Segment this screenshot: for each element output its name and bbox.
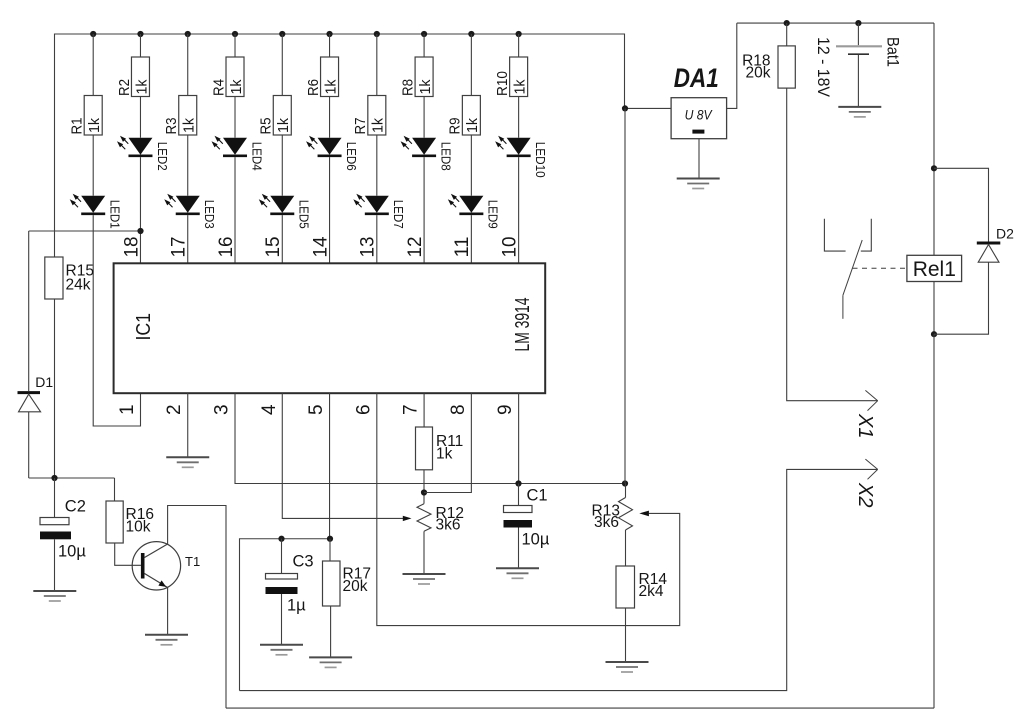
resistor R8 1k bbox=[400, 57, 434, 97]
resistor R9 1k bbox=[448, 96, 482, 136]
svg-text:R10: R10 bbox=[495, 71, 511, 96]
wire: R13 to R14 bbox=[625, 530, 627, 566]
ground: under C1 bbox=[496, 568, 539, 578]
LED LED1 bbox=[70, 194, 122, 229]
svg-text:12 - 18V: 12 - 18V bbox=[814, 37, 833, 98]
wire: LED5 to IC pin 14 bbox=[281, 215, 283, 263]
wire: pin 7 to R11 bbox=[423, 393, 425, 427]
svg-text:20k: 20k bbox=[746, 65, 771, 82]
wire: R16 to T1 base bbox=[115, 543, 141, 565]
svg-text:24k: 24k bbox=[66, 277, 91, 294]
wire: bus junction to DA1 input bbox=[625, 107, 671, 109]
resistor R1 1k bbox=[70, 96, 104, 136]
wire: LED9 to IC pin 10 bbox=[470, 215, 472, 263]
wire: pin 3 to divider top bbox=[235, 393, 625, 483]
svg-text:10µ: 10µ bbox=[522, 530, 550, 548]
LED LED8 bbox=[401, 136, 453, 171]
svg-text:LED10: LED10 bbox=[533, 142, 547, 178]
svg-text:X2: X2 bbox=[854, 482, 876, 507]
wire: X2 to input node bbox=[240, 469, 878, 690]
ground: under T1 bbox=[145, 635, 188, 645]
wire: R3 to LED3 bbox=[187, 135, 189, 196]
svg-text:17: 17 bbox=[169, 237, 190, 258]
svg-text:LED7: LED7 bbox=[391, 200, 405, 229]
wire: battery bus bbox=[737, 22, 934, 24]
wire: T1 collector up-right-down to bottom rail bbox=[168, 506, 226, 709]
wire: relay bottom to bottom rail bbox=[933, 334, 935, 708]
svg-text:R4: R4 bbox=[211, 79, 227, 96]
node: R18 tap bbox=[784, 20, 790, 26]
node: R11/R12/pin8 junction bbox=[421, 489, 427, 495]
svg-text:16: 16 bbox=[216, 237, 237, 258]
wire: LED6 to IC pin 13 bbox=[329, 157, 331, 263]
wire: bus to R6 bbox=[329, 34, 331, 57]
terminal X1 arrow bbox=[854, 390, 878, 438]
wire: LED7 to IC pin 12 bbox=[376, 215, 378, 263]
ground: under C3 bbox=[260, 645, 303, 655]
svg-text:R5: R5 bbox=[259, 118, 275, 135]
svg-text:LED2: LED2 bbox=[155, 142, 169, 171]
wire: DA1 junction down to divider bbox=[624, 108, 626, 483]
wire: DA1 ground pin bbox=[698, 139, 700, 179]
wire: R11 bottom to R12 bbox=[423, 470, 425, 504]
svg-text:R2: R2 bbox=[117, 79, 133, 96]
node: relay top / D2 bbox=[931, 165, 937, 171]
wire: R8 to LED8 bbox=[423, 97, 425, 138]
svg-text:LED8: LED8 bbox=[438, 142, 452, 171]
wire: DA1 output to right bus bbox=[727, 23, 737, 108]
capacitor C1 10u bbox=[504, 484, 550, 569]
svg-text:LED6: LED6 bbox=[344, 142, 358, 171]
svg-text:2k4: 2k4 bbox=[639, 583, 664, 600]
wire: bus to relay coil bbox=[933, 23, 935, 255]
wire: R1 to LED1 bbox=[92, 135, 94, 196]
svg-text:1k: 1k bbox=[418, 79, 434, 95]
svg-text:X1: X1 bbox=[854, 413, 876, 438]
svg-text:D2: D2 bbox=[996, 226, 1014, 242]
wire: R6 to LED6 bbox=[329, 97, 331, 138]
svg-text:11: 11 bbox=[452, 237, 473, 258]
wire: input node horizontal (X2 riser to R17) bbox=[240, 539, 331, 691]
wire: bus to R9 bbox=[470, 34, 472, 96]
resistor R15 24k bbox=[45, 257, 94, 299]
svg-text:20k: 20k bbox=[343, 578, 368, 595]
node: relay bottom / D2 bbox=[931, 331, 937, 337]
wire: LED8 to IC pin 11 bbox=[423, 157, 425, 263]
svg-text:9: 9 bbox=[495, 404, 516, 415]
wire: T1 emitter to ground bbox=[167, 588, 169, 635]
wire: R14 to ground bbox=[625, 608, 627, 662]
wire: pin 8 to R11/R12 junction bbox=[424, 393, 471, 492]
node: divider/DA1 junction bbox=[622, 480, 628, 486]
svg-text:T1: T1 bbox=[185, 554, 200, 569]
svg-text:R6: R6 bbox=[306, 79, 322, 96]
resistor R3 1k bbox=[164, 96, 198, 136]
wiper arrow into R12 bbox=[403, 516, 412, 521]
ground: under C2 bbox=[33, 591, 76, 601]
svg-text:R3: R3 bbox=[164, 118, 180, 135]
resistor R18 20k bbox=[742, 23, 795, 88]
svg-text:1k: 1k bbox=[323, 79, 339, 95]
svg-text:10µ: 10µ bbox=[58, 542, 86, 560]
transistor T1 bbox=[132, 542, 200, 590]
svg-text:10k: 10k bbox=[126, 519, 151, 536]
ground: pin 2 bbox=[166, 457, 209, 467]
wire: V+ top bus bbox=[55, 34, 625, 257]
svg-text:LED9: LED9 bbox=[486, 200, 500, 229]
svg-text:R1: R1 bbox=[70, 118, 86, 135]
LED LED7 bbox=[353, 194, 405, 229]
resistor R10 1k bbox=[495, 57, 529, 97]
wire: R7 to LED7 bbox=[376, 135, 378, 196]
svg-text:C3: C3 bbox=[293, 553, 314, 571]
svg-text:15: 15 bbox=[263, 237, 284, 258]
resistor R14 2k4 bbox=[616, 566, 667, 608]
svg-text:1k: 1k bbox=[134, 79, 150, 95]
resistor R5 1k bbox=[259, 96, 293, 136]
wire: bottom rail (T1 collector to relay) bbox=[226, 707, 934, 709]
wire: R15 bottom to left junction bbox=[54, 299, 56, 478]
wire: R4 to LED4 bbox=[234, 97, 236, 138]
svg-text:3k6: 3k6 bbox=[436, 517, 461, 534]
wire: bus to R5 bbox=[281, 34, 283, 96]
resistor R16 10k bbox=[106, 478, 154, 543]
wire: R10 to LED10 bbox=[518, 97, 520, 138]
svg-text:1k: 1k bbox=[229, 79, 245, 95]
diode D1 bbox=[18, 231, 54, 478]
svg-text:3k6: 3k6 bbox=[594, 514, 619, 531]
wire: R17 to ground bbox=[330, 606, 332, 657]
node: pin9/C1 junction bbox=[515, 480, 521, 486]
diode D2 (flyback) bbox=[934, 168, 1014, 334]
LED LED3 bbox=[164, 194, 216, 229]
node: DA1/bus junction bbox=[622, 105, 628, 111]
wire: pin 6 to R13 wiper loop bbox=[377, 393, 680, 625]
svg-text:2: 2 bbox=[164, 404, 185, 415]
ground: under R12 bbox=[403, 574, 446, 584]
wire: bus to R4 bbox=[234, 34, 236, 57]
svg-text:R8: R8 bbox=[400, 79, 416, 96]
svg-text:8: 8 bbox=[448, 404, 469, 415]
node: left junction (D1/R15/C2/R16) bbox=[29, 475, 115, 481]
svg-text:U 8V: U 8V bbox=[685, 108, 714, 123]
wire: dashed link Rel1 to contact bbox=[853, 267, 907, 269]
svg-text:LED3: LED3 bbox=[202, 200, 216, 229]
svg-text:6: 6 bbox=[353, 404, 374, 415]
wire: pin 5 to input node bbox=[329, 393, 331, 539]
resistor R17 20k bbox=[323, 539, 371, 606]
ground: under Bat1 bbox=[838, 107, 881, 117]
wiper arrow into R13 bbox=[639, 511, 649, 517]
wire: bus to R2 bbox=[139, 34, 141, 57]
svg-text:C1: C1 bbox=[527, 487, 548, 505]
LED LED4 bbox=[212, 136, 264, 171]
ground: under R14 bbox=[606, 662, 649, 672]
node: C3 junction bbox=[278, 536, 284, 542]
svg-text:1k: 1k bbox=[182, 117, 198, 133]
svg-text:1k: 1k bbox=[465, 117, 481, 133]
node: V+ bus junctions bbox=[90, 31, 522, 37]
wire: R5 to LED5 bbox=[281, 135, 283, 196]
svg-text:Rel1: Rel1 bbox=[913, 258, 956, 281]
svg-text:1k: 1k bbox=[436, 446, 453, 463]
potentiometer R12 3k6 bbox=[417, 504, 464, 534]
svg-text:IC1: IC1 bbox=[133, 313, 155, 341]
svg-text:1k: 1k bbox=[512, 79, 528, 95]
LED LED9 bbox=[448, 194, 500, 229]
wire: bus to R10 bbox=[518, 34, 520, 57]
wire: R9 to LED9 bbox=[470, 135, 472, 196]
LED LED10 bbox=[495, 136, 547, 178]
wire: LED3 to IC pin 16 bbox=[187, 215, 189, 263]
wire: R2 to LED2 bbox=[139, 97, 141, 138]
resistor R2 1k bbox=[117, 57, 151, 97]
svg-text:13: 13 bbox=[358, 237, 379, 258]
terminal X2 arrow bbox=[854, 459, 878, 507]
wire: R12 bottom to ground bbox=[423, 531, 425, 574]
node: junction at pin18 column bbox=[137, 228, 143, 234]
wire: pin 2 to ground bbox=[187, 393, 189, 457]
svg-text:14: 14 bbox=[310, 236, 331, 257]
svg-text:1k: 1k bbox=[87, 117, 103, 133]
node: pin5/R17 junction bbox=[327, 536, 333, 542]
svg-text:DA1: DA1 bbox=[674, 63, 719, 93]
resistor R11 1k bbox=[416, 427, 464, 470]
svg-text:LED1: LED1 bbox=[108, 200, 122, 229]
wire: LED4 to IC pin 15 bbox=[234, 157, 236, 263]
svg-text:C2: C2 bbox=[65, 497, 86, 515]
resistor R4 1k bbox=[211, 57, 245, 97]
wire: LED2 to IC pin 17 bbox=[139, 157, 141, 263]
svg-text:5: 5 bbox=[306, 404, 327, 415]
relay Rel1 bbox=[907, 255, 962, 281]
battery Bat1 12-18V bbox=[814, 23, 903, 107]
LED LED6 bbox=[306, 136, 358, 171]
wire: bus to R1 bbox=[92, 34, 94, 96]
svg-text:1µ: 1µ bbox=[287, 597, 306, 615]
resistor R6 1k bbox=[306, 57, 340, 97]
svg-text:R9: R9 bbox=[448, 118, 464, 135]
op-amp IC1 LM3914 body bbox=[114, 263, 546, 393]
svg-text:Bat1: Bat1 bbox=[884, 37, 903, 67]
svg-text:1k: 1k bbox=[371, 117, 387, 133]
wire: bus to R7 bbox=[376, 34, 378, 96]
svg-text:LED4: LED4 bbox=[249, 142, 263, 171]
wire: LED10 to IC pin 9 bbox=[518, 157, 520, 263]
regulator DA1 U 8V bbox=[671, 63, 727, 139]
node: Bat1 tap bbox=[855, 20, 861, 26]
capacitor C2 10u bbox=[40, 478, 86, 591]
ground: under DA1 bbox=[677, 179, 720, 189]
capacitor C3 1u bbox=[266, 539, 314, 645]
wire: R18 bottom to X1 bbox=[787, 88, 878, 401]
wire: pin 4 to R12 wiper bbox=[282, 393, 403, 518]
svg-text:12: 12 bbox=[405, 237, 426, 258]
svg-text:1: 1 bbox=[117, 404, 138, 415]
svg-text:1k: 1k bbox=[276, 117, 292, 133]
svg-text:LM 3914: LM 3914 bbox=[512, 298, 534, 352]
switch contact (relay output) bbox=[824, 219, 871, 319]
wire: R15/D1 to pin 18 horizontal bbox=[29, 230, 141, 232]
svg-text:LED5: LED5 bbox=[297, 200, 311, 229]
potentiometer R13 3k6 bbox=[592, 484, 633, 532]
wire: LED1 cathode down-around to pin 1 bbox=[93, 215, 140, 426]
svg-text:10: 10 bbox=[499, 237, 520, 258]
svg-text:D1: D1 bbox=[35, 374, 53, 390]
svg-text:4: 4 bbox=[259, 404, 280, 415]
svg-text:3: 3 bbox=[212, 404, 233, 415]
svg-text:7: 7 bbox=[401, 404, 422, 415]
LED LED5 bbox=[259, 194, 311, 229]
wire: pin 9 to C1 bbox=[518, 393, 520, 483]
wire: relay coil bottom bbox=[933, 282, 935, 335]
svg-text:18: 18 bbox=[121, 237, 142, 258]
svg-text:R7: R7 bbox=[353, 118, 369, 135]
wire: bus to R8 bbox=[423, 34, 425, 57]
LED LED2 bbox=[117, 136, 169, 171]
ground: under R17 bbox=[309, 657, 352, 667]
wire: bus to R3 bbox=[187, 34, 189, 96]
resistor R7 1k bbox=[353, 96, 387, 136]
